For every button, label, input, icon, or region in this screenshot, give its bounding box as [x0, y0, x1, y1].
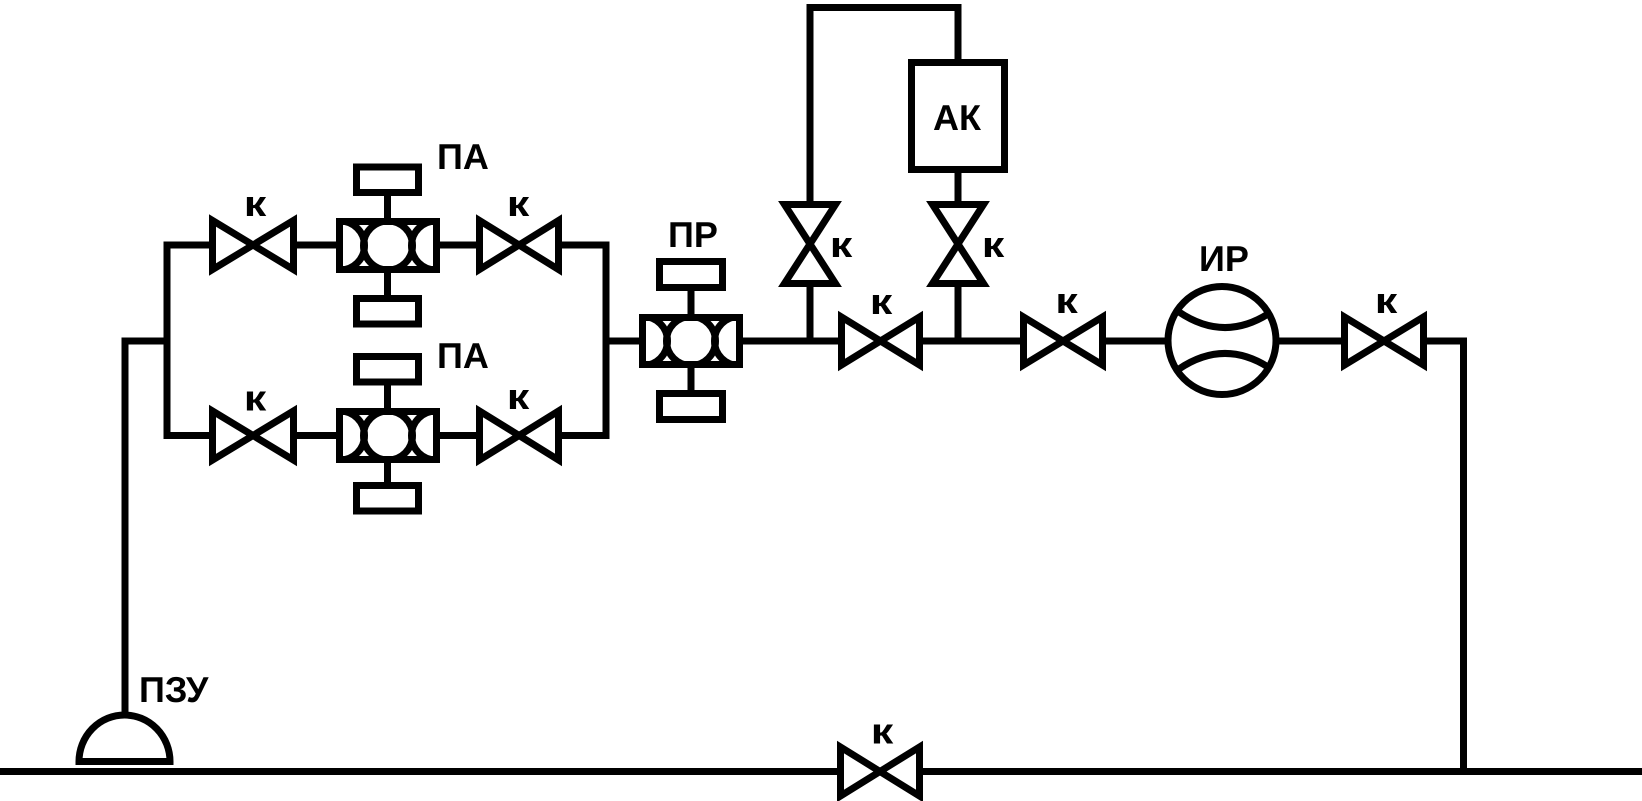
- ПЗУ dome (flame arrestor): [79, 715, 170, 762]
- valve K upper-left: [213, 221, 294, 270]
- svg-text:к: к: [870, 281, 894, 322]
- svg-text:ИР: ИР: [1199, 238, 1249, 279]
- svg-text:ПЗУ: ПЗУ: [139, 669, 209, 710]
- wire manifold to PR: [603, 338, 640, 345]
- PR bottom stub: [688, 365, 695, 394]
- wire right bypass valve to mid line: [955, 284, 962, 342]
- IR upper arc: [1179, 312, 1268, 328]
- wire upper branch left: [164, 242, 213, 249]
- valve K vertical right: [933, 205, 984, 284]
- PA2 top stub: [384, 384, 391, 412]
- valve K mid-line center: [842, 317, 920, 365]
- valve K vertical left: [785, 205, 836, 284]
- valve K upper-right: [480, 221, 559, 270]
- flow meter IR circle: [1168, 287, 1276, 395]
- wire upper branch to PA1: [294, 242, 337, 249]
- svg-text:к: к: [244, 378, 268, 419]
- flow transducer PA1 body: [316, 221, 461, 270]
- valve K before IR: [1024, 317, 1103, 365]
- wire bottom pipeline: [0, 768, 1642, 775]
- wire PA1 to valve: [440, 242, 480, 249]
- svg-text:к: к: [1375, 280, 1399, 321]
- svg-text:к: к: [244, 183, 268, 224]
- wire lower branch left: [164, 432, 213, 439]
- PR top stub: [688, 291, 695, 318]
- wire valve to IR meter: [1103, 338, 1169, 345]
- svg-text:к: к: [1055, 280, 1079, 321]
- svg-text:к: к: [871, 711, 895, 752]
- wire AK bypass loop: left riser, top bracket, down to AK box: [810, 8, 958, 205]
- flow transducer PR body: [619, 317, 764, 366]
- svg-text:к: к: [507, 376, 531, 417]
- wire upper branch right: [559, 242, 610, 249]
- flow transducer PA2 body: [316, 411, 461, 460]
- valve K lower-left: [213, 411, 294, 460]
- AK box (odorizer unit): [912, 63, 1005, 170]
- PA1 top stub: [384, 196, 391, 222]
- svg-text:к: к: [507, 183, 531, 224]
- node manifold left vertical header: [164, 242, 171, 440]
- IR lower arc: [1179, 353, 1268, 369]
- PA1 top box: [357, 167, 419, 193]
- svg-text:ПА: ПА: [437, 136, 489, 177]
- wire AK box to vertical valve: [955, 170, 962, 205]
- PR bottom box: [660, 394, 723, 420]
- wire left riser from PZU dome up and over to manifold: [125, 341, 171, 713]
- svg-text:к: к: [982, 224, 1006, 265]
- valve K lower-right: [480, 411, 559, 460]
- wire right riser from outlet valve down to pipeline: [1424, 341, 1464, 772]
- wire IR to outlet valve: [1276, 338, 1345, 345]
- valve K bottom bypass: [841, 747, 920, 796]
- svg-text:АК: АК: [933, 97, 982, 138]
- PA1 bottom box: [357, 299, 419, 325]
- svg-text:ПА: ПА: [437, 335, 489, 376]
- wire left bypass valve to mid line: [807, 284, 814, 342]
- svg-text:к: к: [830, 224, 854, 265]
- PA2 bottom box: [357, 486, 419, 512]
- PR top box: [660, 262, 723, 288]
- wire lower branch to PA2: [294, 432, 337, 439]
- valve K outlet: [1345, 317, 1424, 365]
- wire PR to mid valve: [743, 338, 842, 345]
- wire PA2 to valve: [440, 432, 480, 439]
- PA2 bottom stub: [384, 460, 391, 486]
- wire lower branch right: [559, 432, 610, 439]
- PA2 top box: [357, 357, 419, 383]
- wire mid valve to next valve: [920, 338, 1024, 345]
- svg-text:ПР: ПР: [668, 214, 718, 255]
- node manifold right vertical header: [603, 242, 610, 440]
- PA1 bottom stub: [384, 270, 391, 299]
